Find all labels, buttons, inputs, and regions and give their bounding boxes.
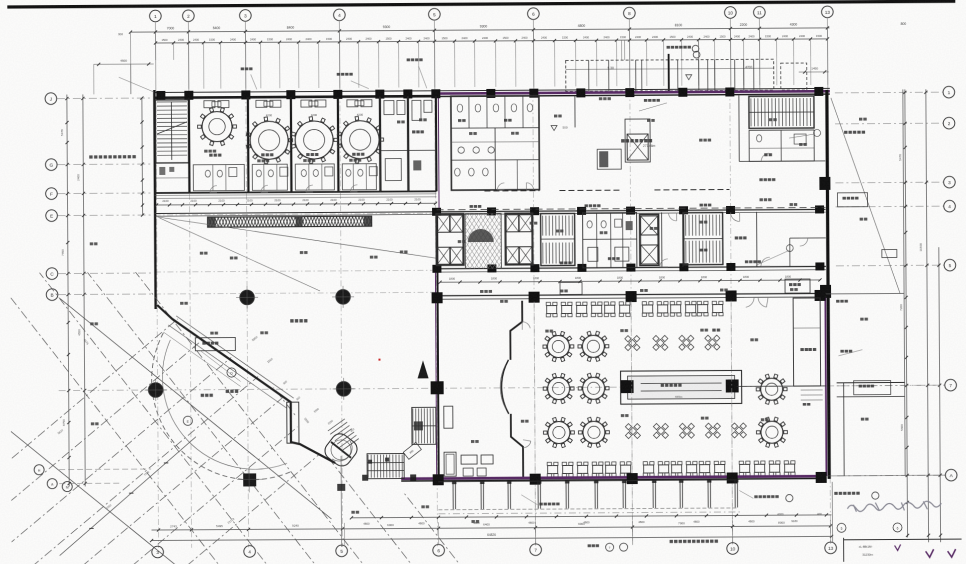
stair ST3 mid rail [684, 238, 723, 240]
room bathroom [342, 164, 376, 190]
grid line col 11 leader [758, 19, 760, 90]
grid row leader right [835, 181, 943, 184]
annotation text [699, 139, 702, 142]
grid line col 4 leader [338, 21, 340, 92]
grid line col 5 leader [433, 21, 435, 92]
loading dock mullion [753, 59, 755, 90]
column banquet top x=437 [432, 292, 443, 303]
grid bubble 5 right [944, 259, 956, 271]
table pair bottom x=683 [672, 465, 682, 473]
column top wall x=247 [241, 90, 250, 99]
top dim comb drop lines [155, 43, 157, 59]
west partition doors [522, 322, 530, 329]
x-table row3 x=632 [629, 427, 636, 434]
table pair top x=683 [671, 305, 681, 313]
corridor dim row2 [156, 197, 436, 199]
bathroom block [451, 96, 540, 191]
topleft slant [119, 77, 154, 92]
grid bubble 7 right [945, 379, 957, 391]
column core top x=582 [577, 207, 586, 215]
elevator lobby hatch [465, 213, 501, 268]
plaza lower-left dim diagonal [59, 437, 197, 556]
room divider x=339 [337, 97, 340, 192]
table pair top x=617 [605, 305, 615, 313]
table pair bottom x=655 [644, 465, 654, 473]
bottom right bubbles [837, 523, 846, 532]
round column (247,296) [240, 290, 254, 304]
north arrow triangle [417, 360, 428, 378]
east wall leader text2 [838, 350, 862, 356]
room bathroom [193, 164, 244, 190]
room below stair [156, 163, 189, 193]
round table banquet (593,389) [583, 377, 605, 399]
dock label circled 9 [692, 45, 699, 52]
annotation text [500, 300, 503, 303]
plaza stair B dots [368, 460, 372, 464]
column banquet top x=631 [626, 291, 637, 302]
grid line col 1 leader [154, 22, 156, 93]
annotation text [647, 119, 650, 122]
grid bubble 6 bottom [433, 544, 445, 556]
grid centreline x=157 [156, 94, 159, 548]
round column (343,296) [336, 290, 350, 304]
annotation text [650, 227, 653, 230]
annotation text [351, 511, 354, 514]
grid centreline x=247 [246, 93, 249, 547]
corridor line right wing [739, 160, 825, 163]
annotation text [303, 159, 306, 162]
grid bubble 11 top [754, 6, 766, 18]
column banquet top x=820 [815, 290, 826, 301]
small column (364,477) [362, 475, 368, 481]
annotation text [180, 302, 183, 305]
round table banquet (771,391) [761, 378, 783, 400]
annotation text [90, 322, 93, 325]
grid row leader right [837, 384, 945, 387]
plaza stair A rail [412, 425, 436, 427]
planter end blobs [208, 217, 216, 227]
annotation text [620, 329, 623, 332]
facade parallel line [168, 324, 287, 409]
loading dock mullion [734, 59, 736, 90]
annotation text [701, 417, 704, 420]
right dim line b [926, 89, 929, 542]
round table banquet (558,347) [547, 335, 569, 357]
loading dock level mark [686, 75, 692, 80]
vdim x=143 [141, 98, 144, 215]
loading dock mullion [588, 60, 590, 91]
annotation text [599, 97, 602, 100]
top border bar [7, 0, 955, 9]
right wing leader [789, 134, 815, 138]
room below stair fixtures [159, 167, 165, 175]
round table banquet (771,434) [761, 421, 783, 443]
column top wall x=535 [529, 89, 538, 98]
grid bubble 4 bottom [244, 546, 256, 558]
core service rooms [583, 213, 637, 268]
grid centreline x=190 [189, 94, 192, 548]
annotation text [799, 143, 802, 146]
stair ST3 treads lower [685, 241, 687, 263]
canopy note 2 [407, 58, 410, 61]
dock leader lines [621, 40, 623, 60]
room sofa group [301, 100, 312, 107]
annotation text [230, 257, 233, 260]
column top wall x=409 [403, 89, 412, 98]
grid row leader [58, 293, 154, 296]
plaza bubble b [183, 416, 192, 425]
annotation text [419, 118, 422, 121]
facade parallel line 2 [163, 331, 240, 386]
elevator bank C [641, 216, 658, 235]
annotation text [759, 198, 762, 201]
red speck [378, 359, 380, 361]
right wing room walls [837, 381, 905, 383]
annotation text [397, 121, 400, 124]
loading dock mullion [608, 60, 610, 91]
grid bubble C left [46, 268, 58, 280]
reception desk arc [501, 360, 508, 414]
round table banquet (593,347) [582, 335, 604, 357]
loading dock mullion [698, 60, 700, 91]
core bottom wall [437, 266, 826, 268]
table pair bottom x=751 [740, 464, 750, 472]
annotation text [300, 251, 303, 254]
dock small box right [781, 63, 807, 90]
column core top x=492 [487, 207, 496, 215]
grid centreline x=829 [828, 90, 831, 544]
annotation text [720, 289, 723, 292]
note text below colonnade [539, 503, 542, 506]
grid bubble F left [46, 188, 58, 200]
x-table row1 x=632 [629, 339, 636, 346]
lobby text [290, 319, 293, 322]
loading dock inner line [566, 68, 774, 69]
grid bubble 5 top [429, 8, 441, 20]
grid bubble 13 bottom [825, 542, 837, 554]
top wall inner left [154, 96, 436, 98]
annotation text [260, 331, 263, 334]
column core bottom x=631 [626, 264, 635, 272]
grid bubble 2 top [183, 10, 195, 22]
right wing top text [844, 131, 847, 134]
annotation text [521, 420, 524, 423]
banquet bottom wall black [401, 478, 823, 481]
title block left line [843, 538, 845, 562]
annotation text [204, 150, 207, 153]
grid bubble 7 bottom [530, 544, 542, 556]
room divider x=190 [188, 98, 191, 193]
right wing bottom line [827, 474, 945, 477]
bathroom texts [458, 119, 461, 122]
loading dock mullion [677, 60, 679, 91]
annotation text [210, 332, 213, 335]
bottom dim row 3 [152, 536, 832, 540]
grid bubble 2 right [943, 117, 955, 129]
left dim line b [83, 94, 85, 486]
dim row 1 top [130, 28, 829, 32]
column core top x=820 [815, 205, 824, 213]
annotation text [471, 440, 474, 443]
grid x340 lower tail [340, 456, 343, 547]
right wing diagonal [831, 97, 900, 293]
lobby facade inner [176, 315, 294, 399]
right dim line c [939, 247, 941, 542]
table pair top x=589 [577, 305, 587, 313]
column core bottom x=820 [815, 262, 824, 270]
canopy note 1 [337, 73, 340, 76]
annotation text [640, 289, 643, 292]
grid bubble 4 top [334, 9, 346, 21]
annotation text [458, 240, 461, 243]
column top wall x=631 [625, 88, 634, 97]
stair ST2 arrow [545, 238, 571, 240]
elevator bank A [437, 215, 450, 232]
core extra texts [560, 262, 563, 265]
colonnade [438, 480, 736, 482]
loading dock mullion [707, 60, 709, 91]
stair ST2 mid rail [541, 238, 575, 240]
column top wall x=292 [286, 90, 295, 99]
round column (155,388) [148, 383, 162, 397]
bottom centre text [670, 540, 673, 543]
plaza dashed arc [151, 332, 292, 480]
core top wall [437, 209, 826, 211]
annotation text [600, 231, 603, 234]
round table room4 [341, 121, 379, 159]
grid bubble 3 top [240, 10, 252, 22]
stair ST4 outline [749, 96, 814, 128]
grid bubble 3 right [944, 176, 956, 188]
annotation text [790, 288, 793, 291]
elevator bank B [506, 215, 519, 232]
grid centreline y=191 [154, 191, 435, 193]
pantry fixtures [384, 101, 394, 115]
core lobby walls [661, 212, 663, 266]
right wing texts [836, 300, 839, 303]
grid row leader right [836, 264, 944, 267]
small room above banquet mid [560, 282, 582, 294]
grid row leader right [835, 91, 943, 94]
room below ST4 [749, 130, 814, 161]
annotation text [480, 290, 483, 293]
column top wall x=820 [814, 87, 823, 96]
stage column right [726, 379, 739, 392]
round table room2 [250, 121, 288, 159]
x-table row1 x=686 [683, 339, 690, 346]
grid bubble 1 top [150, 10, 162, 22]
left lower bubbles [34, 465, 44, 475]
top wall purple band [436, 91, 830, 93]
stair ST3 outline [684, 213, 723, 265]
annotation text [769, 118, 772, 121]
lounge table [463, 468, 473, 476]
column top wall x=190 [184, 91, 193, 100]
room bathroom [295, 164, 334, 190]
lounge sofa 1 [444, 452, 456, 476]
east note text [712, 329, 715, 332]
table pair bottom x=589 [578, 465, 588, 473]
annotation text [400, 250, 403, 253]
AD text [764, 153, 767, 156]
grid row leader right [835, 122, 943, 125]
prefunction small leader [639, 103, 667, 111]
x-table row1 x=660 [657, 339, 664, 346]
grid bubble 10 bottom [727, 543, 739, 555]
annotation text [560, 290, 563, 293]
room sofa group [204, 101, 215, 108]
room below ST4 fixtures [757, 135, 762, 142]
stair ST1 break line [157, 122, 187, 134]
annotation text [554, 115, 557, 118]
grid bubble 5 bottom [336, 545, 348, 557]
loading dock mullion [714, 60, 716, 91]
banquet west partition [510, 301, 523, 477]
lounge sofa 3 [444, 406, 453, 428]
right dim line a [905, 89, 908, 537]
room divider x=437 [435, 96, 438, 191]
column bottom wall x=731 [727, 472, 738, 483]
grid centreline y=292 [155, 292, 436, 294]
column top wall x=731 [725, 87, 734, 96]
small room above banquet right [785, 279, 810, 293]
banquet top doors [746, 297, 754, 307]
lounge sofa 2 [461, 455, 477, 464]
lobby diagonal line 2 [160, 217, 320, 292]
left tail lines [59, 468, 151, 471]
plaza bottom dim [61, 481, 351, 483]
grid line col 2 leader [187, 22, 189, 93]
column top wall x=684 [678, 88, 687, 97]
left dim line a [67, 95, 69, 487]
stair ST4 rail [749, 111, 814, 113]
stair ST2 treads upper [542, 216, 544, 236]
plaza stair A treads [412, 408, 414, 443]
right wing box [837, 193, 867, 207]
room bathroom [252, 164, 287, 190]
loading dock thick post [668, 54, 670, 91]
small column (412,477) [410, 474, 416, 480]
core service fixtures [587, 221, 592, 228]
round table banquet (558,389) [548, 377, 570, 399]
grid line col 3 leader [244, 22, 246, 93]
bottom small circled pair [606, 543, 614, 551]
grid bubble 3 bottom [152, 546, 164, 558]
column banquet top x=731 [726, 290, 737, 301]
prefunction side box [597, 149, 621, 169]
banquet top wall [437, 293, 826, 295]
right wing mid line [826, 292, 904, 294]
bottom dim row 1 [351, 515, 831, 518]
plaza stair B rails [367, 461, 404, 463]
annotation text [761, 418, 764, 421]
top dim connectors [154, 32, 156, 43]
topleft leader [94, 63, 154, 65]
top wall inner right [436, 94, 830, 96]
table pair top x=710 [698, 305, 708, 313]
column top wall x=162 [156, 91, 165, 100]
grid bubble 8 top [624, 7, 636, 19]
x-table row3 x=712 [709, 427, 716, 434]
annotation text [91, 422, 94, 425]
grid bubble G left [45, 159, 57, 171]
annotation text [471, 520, 474, 523]
entrance steps [328, 419, 345, 431]
column core top x=731 [726, 206, 735, 214]
note text right of colonnade [739, 490, 753, 498]
purple check marks [926, 549, 934, 557]
column east wall y=185 [819, 177, 830, 190]
column core bottom x=684 [679, 263, 688, 271]
east ramp lines [801, 389, 823, 391]
level mark prefunction [551, 126, 557, 131]
grid bubble 10 top [725, 7, 737, 19]
bottom dim row 2 [152, 526, 832, 530]
core right room text [735, 236, 738, 239]
grid centreline x=631 [630, 91, 633, 545]
dim row 2 top [156, 39, 828, 43]
annotation text [860, 218, 863, 221]
annotation text [861, 418, 864, 421]
round table banquet (593,433) [583, 421, 605, 443]
stage lines [641, 382, 722, 384]
grid centreline x=534 [533, 92, 536, 546]
grid centreline y=213 [155, 213, 436, 215]
level text row [89, 155, 92, 158]
annotation text [700, 221, 703, 224]
column top wall x=381 [375, 90, 384, 99]
column west wall y=388 [431, 381, 444, 394]
banquet centreline x=731 [731, 300, 732, 544]
annotation text [200, 252, 203, 255]
topleft drop [93, 64, 95, 94]
grid line col 8 leader [628, 20, 630, 91]
east shaft room [793, 298, 821, 386]
right wing boundary [903, 89, 905, 475]
annotation text [349, 159, 352, 162]
stage column left [621, 380, 634, 393]
stair ST2 treads lower [542, 243, 544, 264]
grid centreline x=436 [435, 92, 438, 546]
grid bubble A right [945, 469, 957, 481]
pantry room walls [379, 97, 382, 192]
room divider x=381 [379, 97, 382, 192]
banquet centreline x=534 [534, 302, 535, 546]
stair ST1 treads [157, 101, 187, 103]
grid row leader [58, 272, 154, 275]
plaza diagonal gridlines [0, 265, 547, 564]
car rect [882, 249, 897, 257]
column bottom wall x=437 [433, 474, 444, 485]
lobby diagonal line 1 [158, 215, 437, 260]
stage text [661, 384, 664, 387]
column core bottom x=492 [487, 264, 496, 272]
grid bubble J left [45, 93, 57, 105]
annotation text [790, 203, 793, 206]
round column (343,388) [336, 382, 350, 396]
loading dock dashed outline [566, 59, 774, 91]
goods lift [627, 134, 648, 160]
lobby facade wall [157, 304, 335, 464]
x-table row3 x=738 [735, 427, 742, 434]
plaza text blob 1 [201, 394, 204, 397]
annotation text [859, 118, 862, 121]
square column (248,478) [243, 473, 256, 486]
stair ST4 treads [750, 98, 752, 126]
stair ST3 treads upper [685, 215, 687, 236]
plaza stair B treads [367, 455, 369, 478]
grid centreline y=270 [155, 270, 436, 272]
